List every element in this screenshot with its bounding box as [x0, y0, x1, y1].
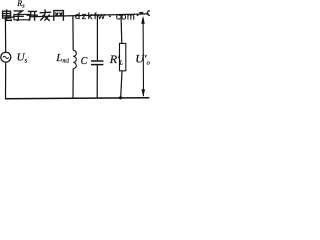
- svg-text:Rs: Rs: [16, 0, 25, 9]
- svg-text:Lm1: Lm1: [55, 52, 69, 65]
- svg-text:dzkfw: dzkfw: [75, 11, 106, 22]
- svg-text:com: com: [116, 11, 135, 22]
- svg-text:Us: Us: [17, 52, 28, 65]
- svg-text:U′o: U′o: [135, 52, 150, 67]
- svg-text:C: C: [81, 56, 88, 67]
